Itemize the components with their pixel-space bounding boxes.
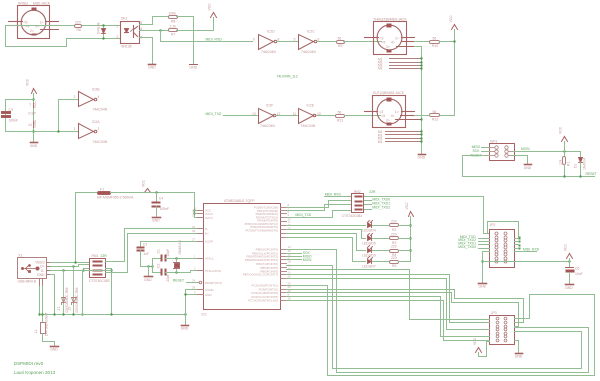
ground GND (L1) bbox=[51, 346, 59, 348]
wire MIDI_RXD from junction to IC2D bbox=[161, 31, 253, 42]
capacitor C1 22pF bbox=[153, 258, 161, 260]
svg-text:M1: M1 bbox=[378, 140, 383, 144]
diode D1 1N4004 bbox=[580, 152, 582, 158]
svg-text:220: 220 bbox=[391, 220, 397, 224]
svg-text:VCC: VCC bbox=[563, 243, 567, 251]
svg-text:22R: 22R bbox=[369, 190, 376, 194]
svg-text:ATMEGA8U2-TQFP: ATMEGA8U2-TQFP bbox=[224, 199, 255, 203]
svg-text:VCC: VCC bbox=[141, 179, 145, 187]
svg-text:THRU(2)B/MIDI-JACK: THRU(2)B/MIDI-JACK bbox=[373, 17, 407, 21]
wire D+ row bbox=[51, 265, 90, 267]
ground GND (opto) bbox=[149, 64, 156, 66]
svg-text:1N4148: 1N4148 bbox=[97, 23, 101, 35]
ground GND (MCU) bbox=[182, 325, 189, 327]
svg-text:SM49-8.0: SM49-8.0 bbox=[178, 240, 182, 255]
resistor R10 56 bbox=[430, 41, 440, 44]
supply VCC arrow (JP2) bbox=[567, 254, 573, 259]
wire RN1 out rows to MCU D-/D+ bbox=[106, 229, 202, 262]
ground GND (JP3) bbox=[516, 353, 523, 355]
ground GND (xtal) bbox=[148, 267, 150, 276]
svg-text:GND: GND bbox=[181, 327, 189, 331]
capacitor C9 100nF bbox=[2, 112, 11, 118]
mount pins M1-M4 (THRU) bbox=[390, 59, 422, 69]
wire zener mid riser bbox=[82, 271, 84, 315]
svg-text:IC2P: IC2P bbox=[28, 112, 36, 116]
wire MCU to RN2 r3 bbox=[287, 205, 352, 211]
wire MCU RXD1 to RN2 r2 bbox=[287, 201, 352, 208]
svg-text:IC2F: IC2F bbox=[266, 104, 273, 108]
MCU right pin numbers bbox=[288, 203, 292, 300]
resistor R12 56 bbox=[430, 114, 440, 117]
supply VCC arrow (opto pullup) bbox=[211, 13, 217, 18]
wire JP2 gnd drop bbox=[483, 252, 490, 283]
diode D3 1N4148 bbox=[102, 26, 106, 39]
svg-text:R11: R11 bbox=[337, 118, 343, 122]
wire net MIDI-IN left loop bbox=[6, 26, 121, 47]
svg-text:GND: GND bbox=[205, 293, 211, 297]
inverter IC2D 74AC04N bbox=[259, 35, 277, 50]
MCU left pin stubs bbox=[198, 211, 204, 295]
power pins IC2P bbox=[33, 104, 35, 128]
svg-text:GND: GND bbox=[515, 355, 523, 359]
wire nest N3 bbox=[287, 270, 490, 320]
svg-text:11: 11 bbox=[293, 112, 297, 116]
svg-text:74AC04N: 74AC04N bbox=[301, 124, 316, 128]
USB icon inside X1 bbox=[21, 265, 39, 273]
wire nest N2 bbox=[287, 266, 582, 369]
svg-text:AVCC: AVCC bbox=[205, 216, 213, 220]
svg-text:VCC: VCC bbox=[405, 202, 409, 210]
svg-text:C1: C1 bbox=[156, 249, 160, 253]
crystal Q1 bbox=[174, 259, 180, 273]
svg-text:D1: D1 bbox=[574, 164, 578, 168]
svg-text:74AC04N: 74AC04N bbox=[93, 108, 108, 112]
wire nest N7 bbox=[287, 290, 524, 323]
ground GND (IC2P) bbox=[31, 142, 38, 144]
wire opto pin8 to R8 bbox=[140, 17, 169, 25]
wire GND row to rail bbox=[51, 275, 55, 315]
svg-text:DSPMIDI rev0: DSPMIDI rev0 bbox=[14, 361, 44, 366]
svg-text:MIDI_TXD: MIDI_TXD bbox=[206, 112, 222, 116]
svg-text:CTS742C083: CTS742C083 bbox=[342, 214, 363, 218]
resistor R9 56 bbox=[337, 41, 345, 44]
svg-text:MIDI_TXD: MIDI_TXD bbox=[295, 213, 311, 217]
svg-text:32: 32 bbox=[192, 214, 196, 218]
svg-text:GND: GND bbox=[50, 348, 58, 352]
wire JP3 vcc path bbox=[479, 342, 490, 357]
resistor R8 100k bbox=[169, 16, 178, 19]
svg-text:RESET: RESET bbox=[173, 279, 184, 283]
svg-text:R7: R7 bbox=[171, 33, 175, 37]
wire C1 to XTAL1 pin bbox=[166, 258, 202, 260]
wire OUT pin4 to R12 bbox=[415, 115, 430, 117]
resistor R11 56 bbox=[336, 115, 345, 118]
svg-text:1>: 1> bbox=[395, 110, 399, 114]
ground GND (R8) bbox=[190, 64, 198, 66]
svg-text:VCC: VCC bbox=[208, 3, 212, 11]
wire C2 to XTAL2 pin bbox=[166, 271, 202, 273]
svg-text:GND: GND bbox=[524, 166, 532, 170]
svg-text:C2: C2 bbox=[156, 264, 160, 268]
svg-text:Z2: Z2 bbox=[67, 306, 71, 310]
junction dots D3 bbox=[102, 24, 104, 26]
svg-text:220: 220 bbox=[391, 256, 397, 260]
supply VCC arrow (main rail) bbox=[145, 189, 151, 193]
svg-text:R10: R10 bbox=[432, 44, 438, 48]
wire RN1 row3 to gnd rail bbox=[106, 269, 112, 315]
svg-text:4>: 4> bbox=[391, 114, 395, 118]
svg-text:74AC04N: 74AC04N bbox=[260, 124, 275, 128]
wire R10 to VCC line bbox=[440, 41, 455, 43]
wire to spare inverter inputs bbox=[59, 100, 79, 132]
ground GND (C6) bbox=[566, 284, 574, 286]
capacitor C6 10uF polarized bbox=[566, 267, 574, 269]
svg-text:1>: 1> bbox=[395, 36, 399, 40]
svg-text:GND: GND bbox=[418, 156, 426, 160]
supply VCC arrow (ISP) bbox=[562, 137, 568, 142]
inverter IC2B 74AC04N bbox=[79, 92, 97, 107]
resistor network RN2 22R bbox=[352, 194, 364, 213]
svg-text:27: 27 bbox=[192, 237, 196, 241]
svg-text:MIDI_TXD2: MIDI_TXD2 bbox=[372, 206, 390, 210]
wire THRU pin4 to R10 bbox=[415, 41, 430, 43]
svg-text:IC2B: IC2B bbox=[92, 87, 100, 91]
wire SCK stub bbox=[482, 151, 490, 153]
connector OUT MIDI jack bbox=[365, 96, 422, 128]
wire VCC vertical to OUT jack R12 bbox=[440, 30, 455, 116]
inverter IC2F 74AC04N bbox=[259, 109, 276, 124]
svg-text:R6: R6 bbox=[77, 28, 81, 32]
svg-text:OK1: OK1 bbox=[121, 17, 128, 21]
svg-text:2.2k: 2.2k bbox=[170, 25, 177, 29]
svg-text:4: 4 bbox=[98, 95, 100, 99]
MCU right pin names column bbox=[243, 205, 278, 302]
svg-text:ISP1: ISP1 bbox=[490, 139, 497, 143]
svg-text:F1: F1 bbox=[100, 187, 104, 191]
svg-text:VCC: VCC bbox=[473, 337, 477, 345]
junction dots on jack gnd rail bbox=[420, 57, 422, 59]
svg-text:R9: R9 bbox=[338, 44, 342, 48]
wire C9 loop bbox=[6, 100, 79, 132]
svg-text:VCC: VCC bbox=[449, 15, 453, 23]
capacitor C3 1uF (UCAP) bbox=[141, 241, 198, 243]
svg-text:LED3/D7: LED3/D7 bbox=[362, 265, 376, 269]
svg-text:PD7(INT7/AIN6/AIN5/T0): PD7(INT7/AIN6/AIN5/T0) bbox=[246, 229, 278, 233]
svg-text:MOSI: MOSI bbox=[303, 258, 312, 262]
svg-text:GND: GND bbox=[30, 144, 38, 148]
svg-text:220: 220 bbox=[75, 21, 81, 25]
wire MIDI_TXD to RN2 r4 bbox=[287, 211, 352, 218]
svg-text:GND: GND bbox=[148, 66, 156, 70]
supply VCC arrow (IC2 power) bbox=[32, 89, 37, 94]
LED D7 + resistor R5 bbox=[287, 238, 366, 262]
junction dot OUT pin2 bbox=[420, 118, 422, 120]
resistor R6 220 bbox=[75, 25, 82, 28]
svg-text:74LV04N_112: 74LV04N_112 bbox=[277, 75, 298, 79]
wire JP2 to VCC/C6 bbox=[483, 261, 570, 263]
svg-text:1N4004: 1N4004 bbox=[583, 158, 587, 170]
wire RESET row to rail bbox=[482, 155, 490, 157]
svg-text:RN2: RN2 bbox=[354, 190, 361, 194]
svg-text:MF-MSMF050-2 500mA: MF-MSMF050-2 500mA bbox=[97, 196, 134, 200]
svg-text:GND: GND bbox=[479, 285, 487, 289]
svg-text:1uF: 1uF bbox=[143, 252, 149, 256]
wire gnd rail bbox=[40, 314, 186, 316]
connector ISP1 header bbox=[490, 144, 515, 161]
svg-text:74AC04N: 74AC04N bbox=[301, 50, 316, 54]
wire RN2 r1 long to JP2 bbox=[365, 197, 490, 234]
svg-text:R8: R8 bbox=[171, 19, 175, 23]
svg-text:DSS06MLC-7B6: DSS06MLC-7B6 bbox=[75, 287, 79, 312]
svg-text:MIDI_RXD: MIDI_RXD bbox=[523, 248, 540, 252]
wire shield pins to rail bbox=[40, 287, 43, 315]
wire fuse to MCU VCC rail bbox=[111, 193, 195, 218]
svg-text:OUT(2)B/MIDI-JACK: OUT(2)B/MIDI-JACK bbox=[373, 91, 405, 95]
wire IC2C out to R9 bbox=[317, 41, 337, 43]
svg-text:6N138: 6N138 bbox=[122, 45, 132, 49]
svg-text:M1: M1 bbox=[378, 67, 383, 71]
junction node opto out bbox=[159, 29, 161, 31]
wire JP2 top loop bbox=[488, 222, 519, 237]
wire nest N10 bbox=[287, 301, 490, 341]
wire MISO stub bbox=[482, 147, 490, 149]
ground GND (ISP) bbox=[525, 164, 532, 166]
fuse F1 MF-MSMF050-2 bbox=[98, 192, 111, 195]
svg-text:RN1: RN1 bbox=[92, 254, 99, 258]
MCU reset pin bubble bbox=[199, 281, 202, 284]
svg-text:1: 1 bbox=[117, 25, 119, 29]
connector JP2 header bbox=[490, 230, 515, 268]
connector X2 MIDI-IN jack bbox=[9, 6, 59, 39]
wire IC2D out to IC2C in bbox=[277, 41, 299, 43]
svg-text:1: 1 bbox=[74, 127, 76, 131]
svg-text:IC2C: IC2C bbox=[307, 30, 315, 34]
wire R9 to THRU jack bbox=[344, 41, 382, 43]
svg-text:R5: R5 bbox=[392, 264, 396, 268]
inverter IC2E 74AC04N bbox=[299, 109, 316, 124]
svg-text:10uF: 10uF bbox=[575, 272, 583, 276]
wire opto pin6 to R7 and VCC bbox=[140, 30, 169, 32]
wire IC2F to IC2E bbox=[276, 115, 299, 117]
svg-text:MIDI-JACK: MIDI-JACK bbox=[33, 1, 51, 5]
inductor L1 DR73 bbox=[42, 315, 44, 323]
svg-text:GND: GND bbox=[152, 219, 160, 223]
svg-text:PB7(OC0A/OC1C/PCINT7): PB7(OC0A/OC1C/PCINT7) bbox=[243, 273, 278, 277]
resistor R1 10k vertical bbox=[563, 157, 566, 165]
resistor network RN1 22R bbox=[90, 259, 106, 278]
MCU left pin names bbox=[205, 208, 222, 297]
wire VBUS row bbox=[51, 262, 90, 264]
svg-text:GND: GND bbox=[565, 286, 573, 290]
svg-text:L1: L1 bbox=[34, 329, 38, 333]
wire R8 to GND drop bbox=[177, 17, 194, 64]
svg-text:100k: 100k bbox=[169, 11, 177, 15]
MCU right pin stubs bbox=[281, 208, 287, 301]
svg-text:14: 14 bbox=[28, 123, 32, 127]
svg-text:28: 28 bbox=[192, 286, 196, 290]
wire nest N1 bbox=[287, 250, 589, 373]
svg-text:29: 29 bbox=[192, 229, 196, 233]
svg-text:74AC04N: 74AC04N bbox=[93, 140, 108, 144]
svg-text:3: 3 bbox=[74, 95, 76, 99]
wire MIDI_RXD stub right bbox=[515, 251, 537, 253]
svg-text:220: 220 bbox=[391, 233, 397, 237]
wire MIDI_RXD stub to RN2 r1 bbox=[325, 196, 352, 198]
svg-text:22pF: 22pF bbox=[166, 274, 170, 282]
svg-text:DR73/B-6093-T: DR73/B-6093-T bbox=[45, 312, 49, 336]
svg-text:GND: GND bbox=[190, 66, 198, 70]
svg-text:MOSI: MOSI bbox=[521, 147, 530, 151]
svg-text:10k: 10k bbox=[559, 159, 563, 165]
svg-text:CTS740C083: CTS740C083 bbox=[89, 279, 110, 283]
svg-text:GND: GND bbox=[37, 273, 45, 277]
svg-text:IC2D: IC2D bbox=[267, 30, 275, 34]
svg-text:MIDI_TXD0: MIDI_TXD0 bbox=[458, 245, 476, 249]
connector X1 USB-MINI-B bbox=[18, 258, 51, 287]
zener Z2 DSS06 bbox=[72, 267, 77, 315]
wire JP3 gnd bbox=[515, 341, 519, 353]
svg-text:C4: C4 bbox=[159, 196, 163, 200]
svg-text:UCAP: UCAP bbox=[205, 240, 213, 244]
wire nest N9 bbox=[287, 297, 490, 337]
svg-text:Z1: Z1 bbox=[57, 306, 61, 310]
svg-text:C6: C6 bbox=[575, 267, 579, 271]
svg-text:C9: C9 bbox=[9, 108, 13, 112]
svg-text:2: 2 bbox=[98, 127, 100, 131]
supply VCC arrow (JP3) bbox=[476, 348, 482, 353]
svg-text:1>: 1> bbox=[40, 20, 44, 24]
ground GND (C4) bbox=[153, 217, 161, 219]
svg-text:RESET: RESET bbox=[586, 172, 597, 176]
wire nest N4 bbox=[287, 275, 490, 323]
supply VCC arrow (jacks) bbox=[452, 25, 458, 30]
zener Z1 DSS06 bbox=[62, 271, 66, 315]
svg-text:56: 56 bbox=[338, 36, 342, 40]
svg-text:24: 24 bbox=[192, 279, 196, 283]
svg-text:2>: 2> bbox=[386, 45, 390, 49]
svg-text:UGND: UGND bbox=[205, 288, 214, 292]
svg-text:Lauri Koponen 2013: Lauri Koponen 2013 bbox=[14, 370, 56, 375]
svg-text:2: 2 bbox=[117, 35, 119, 39]
svg-text:VCC: VCC bbox=[26, 78, 30, 86]
optocoupler OK1 6N138 bbox=[121, 22, 140, 44]
wire ISP gnd bbox=[514, 156, 528, 165]
wire D- cross rail to RN1 right bbox=[84, 270, 112, 272]
LED D4 + resistor R2 bbox=[287, 225, 366, 227]
svg-text:R12: R12 bbox=[432, 118, 438, 122]
wire VBUS riser to fuse bbox=[76, 193, 98, 263]
svg-text:22R: 22R bbox=[101, 254, 108, 258]
svg-text:GND: GND bbox=[144, 278, 152, 282]
wire opto pin5 to GND bbox=[140, 38, 153, 64]
svg-text:R1: R1 bbox=[567, 162, 571, 166]
svg-text:56: 56 bbox=[433, 110, 437, 114]
MCU left pin numbers bbox=[192, 206, 196, 295]
svg-text:5: 5 bbox=[294, 38, 296, 42]
svg-text:2>: 2> bbox=[386, 118, 390, 122]
LED D6 + resistor R4 bbox=[287, 234, 366, 251]
capacitor C2 22pF bbox=[153, 272, 161, 274]
svg-text:LED3/D4: LED3/D4 bbox=[362, 228, 376, 232]
wire nest N5 bbox=[287, 279, 490, 330]
svg-text:100nF: 100nF bbox=[160, 207, 170, 211]
wire R7 to VCC bbox=[177, 18, 214, 31]
wire nest N6 bbox=[287, 286, 595, 376]
wire MIDI_TXD to IC2F bbox=[224, 115, 259, 117]
svg-text:2>: 2> bbox=[30, 29, 34, 33]
svg-text:74AC04N: 74AC04N bbox=[261, 50, 276, 54]
wire C1/C2 left vertical bbox=[152, 259, 154, 273]
svg-text:C3: C3 bbox=[143, 243, 147, 247]
svg-text:56: 56 bbox=[433, 36, 437, 40]
wire R11 to OUT jack bbox=[345, 115, 381, 117]
wire IC2E out to R11 bbox=[317, 115, 336, 117]
svg-text:13: 13 bbox=[252, 112, 256, 116]
mount pins M1-M4 (OUT) bbox=[386, 132, 421, 142]
supply VCC arrow (LEDs) bbox=[409, 212, 414, 217]
svg-text:D+: D+ bbox=[205, 231, 209, 235]
svg-text:<5: <5 bbox=[381, 114, 385, 118]
svg-text:100nF: 100nF bbox=[9, 119, 19, 123]
svg-text:RESET(PC1): RESET(PC1) bbox=[205, 281, 222, 285]
svg-text:4>: 4> bbox=[391, 41, 395, 45]
svg-text:JP3: JP3 bbox=[491, 311, 497, 315]
svg-text:7: 7 bbox=[29, 103, 31, 107]
wire MCU UGND/GND to rail bbox=[186, 290, 202, 325]
wire VCC pins stubs bbox=[195, 211, 202, 218]
svg-text:PC7(ICP1/INT4/CLKO): PC7(ICP1/INT4/CLKO) bbox=[248, 299, 278, 303]
svg-text:9: 9 bbox=[253, 38, 255, 42]
svg-text:IC2A: IC2A bbox=[92, 120, 100, 124]
svg-text:IC2E: IC2E bbox=[307, 104, 315, 108]
wire nest N8 bbox=[287, 293, 519, 327]
labels SCK MISO MOSI stubs bbox=[287, 254, 302, 260]
svg-text:XTAL2(PC0): XTAL2(PC0) bbox=[205, 269, 221, 273]
wire VCC down to gnd rail (IC2P) bbox=[33, 94, 35, 142]
wire MOSI row to VCC/diode bbox=[514, 151, 581, 153]
resistor R7 2.2k bbox=[169, 29, 178, 32]
svg-text:LED3/D5: LED3/D5 bbox=[362, 241, 376, 245]
LED D5 + resistor R3 bbox=[287, 230, 366, 239]
svg-text:IN7BU: IN7BU bbox=[18, 1, 29, 5]
svg-text:MIDI_RXD: MIDI_RXD bbox=[206, 38, 223, 42]
svg-text:220: 220 bbox=[391, 245, 397, 249]
svg-text:<5: <5 bbox=[382, 41, 386, 45]
wire L1 to GND bbox=[43, 334, 55, 346]
capacitor C4 100nF bbox=[156, 193, 158, 203]
JP2 left stubs + labels bbox=[479, 239, 490, 249]
svg-text:JP2: JP2 bbox=[490, 223, 496, 227]
svg-text:VCC: VCC bbox=[33, 101, 37, 109]
wire THRU pin2/mounts to GND rail bbox=[415, 47, 422, 154]
wire D- row bbox=[51, 269, 90, 271]
svg-text:X1: X1 bbox=[18, 254, 22, 258]
connector JP3 header bbox=[490, 316, 515, 345]
svg-text:22pF: 22pF bbox=[166, 249, 170, 257]
inverter IC2C 74AC04N bbox=[299, 35, 317, 50]
svg-text:GND: GND bbox=[33, 119, 37, 127]
svg-text:XTAL1: XTAL1 bbox=[205, 257, 214, 261]
junction dots OUT mounts bbox=[420, 130, 422, 132]
svg-text:IC1: IC1 bbox=[202, 313, 207, 317]
connector THRU MIDI jack bbox=[365, 22, 415, 55]
labels MIDI_TXD0..2 stubs bbox=[365, 201, 372, 210]
op-amp U1 microcontroller IC1 ATMEGA8U2-TQFP box bbox=[204, 204, 281, 310]
wire xtal gnd rail bbox=[141, 266, 153, 268]
svg-text:VCC: VCC bbox=[558, 126, 562, 134]
ground GND (JP2) bbox=[479, 283, 487, 285]
inverter IC2A 74AC04N bbox=[79, 124, 97, 139]
